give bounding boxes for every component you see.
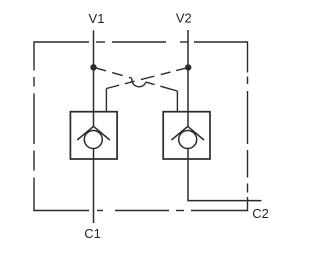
wire C1 vertical line	[93, 159, 95, 223]
pilot line A: dashed diagonal after hop to right valve pilot corner	[146, 82, 178, 91]
svg-text:C1: C1	[84, 226, 101, 241]
port label V2	[176, 11, 192, 26]
enclosure left edge	[33, 41, 35, 211]
check valve U1 seat (right arm)	[94, 126, 110, 140]
check valve U2 body (right square)	[163, 112, 210, 159]
wire C2 vertical segment from U2	[187, 159, 189, 201]
port label C2	[252, 206, 269, 221]
check valve U1 seat (left arm)	[77, 126, 93, 140]
check valve U2 internal line (bottom)	[187, 149, 189, 160]
enclosure top edge (long-short dashed boundary)	[34, 41, 248, 43]
pilot line B: dashed diagonal from V2 node to left valve pilot corner	[106, 68, 186, 89]
wire C2 horizontal segment to port	[187, 200, 261, 202]
node junction dot on V2 line	[185, 64, 191, 70]
port label V1	[89, 11, 105, 26]
svg-text:C2: C2	[252, 206, 269, 221]
pilot line B: vertical drop into U1	[105, 89, 107, 113]
enclosure bottom edge	[34, 210, 248, 212]
check valve U1 internal line (bottom)	[93, 149, 95, 160]
enclosure right edge	[247, 41, 249, 211]
check valve U1 body (left square)	[70, 112, 117, 159]
check valve U2 seat (right arm)	[188, 126, 204, 140]
wire V1 vertical line	[93, 30, 95, 112]
check valve U2 seat (left arm)	[171, 126, 187, 140]
svg-text:V1: V1	[89, 11, 105, 26]
wire V2 vertical line	[187, 30, 189, 112]
svg-text:V2: V2	[176, 11, 192, 26]
pilot line A crossover hop (semicircle)	[132, 78, 146, 87]
check valve U2 ball (circle)	[179, 131, 197, 149]
node junction dot on V1 line	[90, 64, 96, 70]
pilot line A: vertical drop into U2	[176, 91, 178, 112]
check valve U2 internal line (top)	[187, 112, 189, 128]
port label C1	[84, 226, 101, 241]
check valve U1 internal line (top)	[93, 112, 95, 128]
check valve U1 ball (circle)	[84, 131, 102, 149]
pilot line A: dashed diagonal from V1 node to right valve (first half)	[95, 68, 132, 78]
